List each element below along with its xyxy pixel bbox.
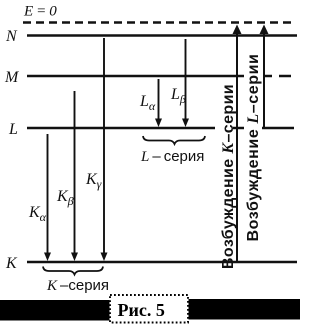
level M dash 1 (right of L-excitation line) xyxy=(263,75,272,78)
caption black bar right xyxy=(189,299,301,320)
brace under L-series arrows xyxy=(143,136,205,144)
svg-text:K –серия: K –серия xyxy=(46,277,109,294)
level L line middle segment xyxy=(233,127,244,130)
excitation line K-series (K level up to E=0) xyxy=(233,25,242,263)
brace under K-series arrows xyxy=(43,267,103,275)
svg-text:L: L xyxy=(8,121,18,138)
level M dash 2 (near right edge) xyxy=(279,75,291,78)
level L line left segment xyxy=(27,127,215,130)
excitation line L-series (L level up to E=0) xyxy=(260,25,269,129)
svg-text:Возбуждение L–серии: Возбуждение L–серии xyxy=(245,53,262,241)
transition arrow L-beta (N to L) xyxy=(182,39,189,127)
svg-text:K: K xyxy=(5,255,18,272)
caption black bar left xyxy=(0,300,110,321)
svg-text:Возбуждение K–серии: Возбуждение K–серии xyxy=(220,84,237,269)
svg-text:M: M xyxy=(4,69,20,86)
svg-text:L – серия: L – серия xyxy=(140,148,204,165)
level L line right segment xyxy=(262,127,294,130)
E=0 dashed level line xyxy=(23,21,296,24)
transition arrow K-gamma (N to K) xyxy=(101,38,108,261)
level N line xyxy=(27,34,297,37)
svg-text:Рис. 5: Рис. 5 xyxy=(118,300,165,320)
transition arrow K-alpha (L to K) xyxy=(44,134,51,261)
transition arrow K-beta (M to K) xyxy=(71,91,78,261)
level K line xyxy=(27,261,297,264)
level M line xyxy=(27,75,244,78)
caption white box with dotted border xyxy=(110,295,188,323)
transition arrow L-alpha (M to L) xyxy=(155,79,162,127)
svg-text:E = 0: E = 0 xyxy=(23,4,57,20)
svg-text:N: N xyxy=(5,28,18,45)
